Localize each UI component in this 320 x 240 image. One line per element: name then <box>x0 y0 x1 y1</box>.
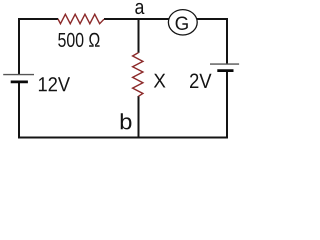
wire: top segment from resistor to galvanometer and right corner <box>104 18 227 20</box>
battery 12V long plate (+) <box>3 74 34 76</box>
node b label <box>121 113 132 129</box>
wire: top-left segment from top-left corner to resistor R(500) <box>19 18 58 20</box>
wire: middle branch upper (node a to resistor X) <box>138 19 140 53</box>
label 500 ohm <box>58 33 99 47</box>
battery 2V long plate (+) <box>210 63 239 65</box>
resistor 500 ohm (zigzag) <box>58 14 104 23</box>
wire: right side lower (battery to bottom-right corner) <box>226 72 228 139</box>
label 12V <box>39 77 70 91</box>
wire: left side lower (battery to bottom-left corner) <box>18 83 20 139</box>
wire: middle branch lower (resistor X to node b) <box>138 96 140 138</box>
wire: right side upper (corner to 2V battery) <box>226 18 228 64</box>
galvanometer G letter <box>176 17 188 31</box>
galvanometer G circle <box>168 10 197 35</box>
label 2V <box>190 74 212 89</box>
resistor X (vertical zigzag) <box>133 53 143 97</box>
battery 12V short plate (-) <box>11 81 28 84</box>
wire: bottom from b to both corners <box>18 137 228 139</box>
label X <box>154 74 166 88</box>
wire: left side upper (corner to 12V battery) <box>18 18 20 75</box>
node a label <box>135 3 144 14</box>
battery 2V short plate (-) <box>217 69 233 72</box>
